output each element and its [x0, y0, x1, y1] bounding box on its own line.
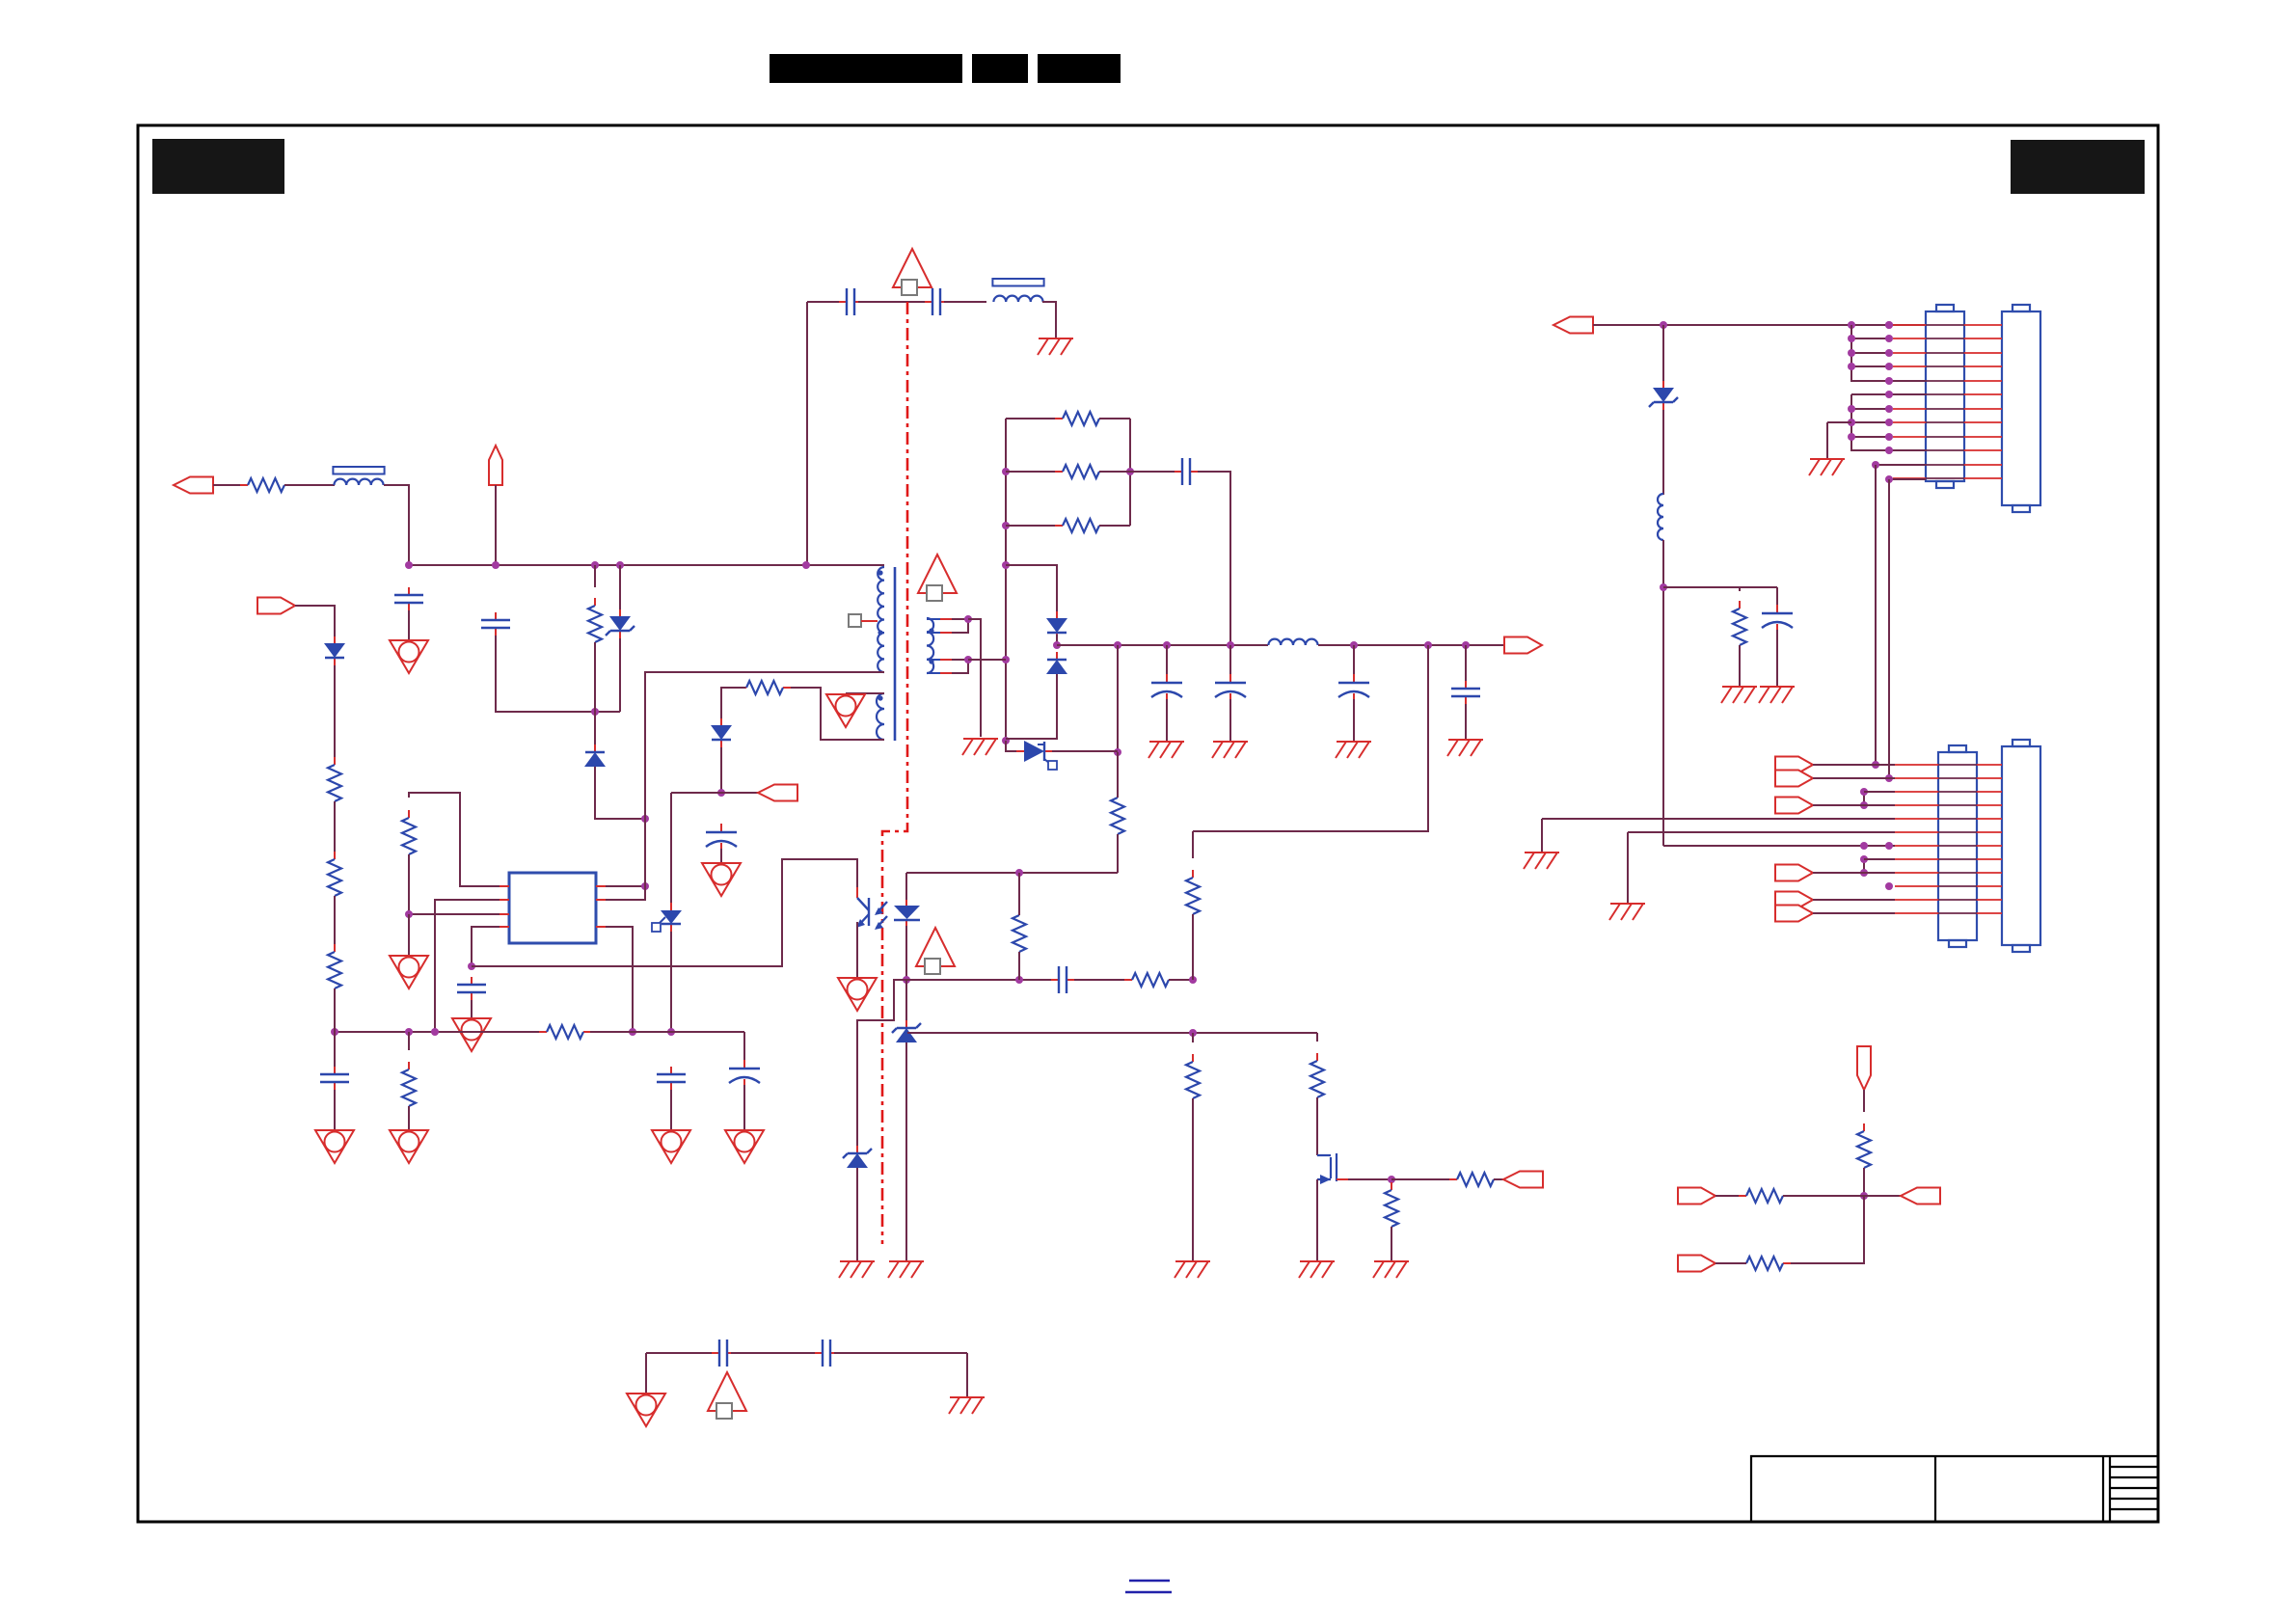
MOSFET Q1 — [1317, 1153, 1348, 1184]
wire R16 to Q1 drain — [1316, 1097, 1318, 1155]
wire LED cathode — [905, 926, 907, 980]
signal ground C5 — [652, 1130, 690, 1163]
wire C10 to ground — [1166, 699, 1168, 742]
wire down — [1627, 832, 1629, 904]
resistor R6 — [328, 852, 341, 904]
chassis ground Z3 — [839, 1261, 875, 1278]
inductor L4 — [1268, 639, 1317, 645]
wire R12 to node — [1192, 914, 1194, 980]
wire J1 pins1-5 tie — [1851, 325, 1926, 381]
U1 pin1 stub — [500, 886, 606, 927]
wire LED to Z2 — [905, 980, 907, 1024]
signal ground R8 — [390, 1130, 428, 1163]
wire sense top — [1192, 831, 1194, 858]
capacitor C6 — [729, 1060, 760, 1088]
wire VIN to bus — [495, 485, 497, 565]
connector tag SENSE — [1857, 1046, 1871, 1090]
redaction box top-left — [152, 139, 284, 194]
connector J1 pin wires inner — [1926, 325, 1964, 478]
chassis ground row6 — [1609, 904, 1645, 920]
junction — [591, 708, 599, 716]
wire CY2 to L3 — [944, 301, 986, 303]
redaction bar small2 — [1038, 54, 1121, 83]
resistor R1 — [588, 598, 602, 650]
transformer T1 auxiliary winding — [877, 693, 884, 740]
diode D5 — [1046, 652, 1067, 682]
wire stub — [1117, 793, 1119, 798]
connector tag ACL — [174, 477, 213, 494]
wire row12 — [1889, 478, 1926, 480]
connector tag VCC out — [758, 785, 797, 801]
capacitor CY1 — [839, 288, 862, 315]
capacitor C13 — [1451, 681, 1480, 704]
connector tag P1 — [1775, 757, 1813, 773]
wire C9 to output bus — [1198, 472, 1230, 645]
wire U3 to bus — [670, 932, 672, 1032]
junction — [1163, 641, 1171, 649]
wire stub R19 — [1739, 587, 1741, 591]
wire row12 drop — [1888, 479, 1890, 778]
wire pin3 to ground — [408, 914, 410, 956]
chassis ground C12 — [1336, 742, 1371, 758]
redaction box top-right — [2011, 140, 2145, 194]
capacitor C1 — [394, 587, 423, 610]
junction — [1462, 641, 1470, 649]
chassis ground CY4 — [949, 1397, 985, 1414]
footer mark — [1125, 1581, 1172, 1592]
resistor R2 — [402, 810, 416, 862]
phase dot secondary2 — [929, 659, 933, 663]
secondary tap stubs pair1 — [927, 619, 940, 633]
wire bottom caps left — [646, 1352, 716, 1354]
wire Rbank right rail — [1129, 419, 1131, 526]
diode D4 — [1046, 611, 1067, 640]
controller IC U1 — [509, 873, 596, 943]
wire tag row11 — [1813, 899, 1895, 901]
connector J3 — [1938, 745, 1977, 947]
chassis ground C11 — [1212, 742, 1248, 758]
wire return to pin7 — [606, 819, 645, 900]
connector tag SDA — [1678, 1188, 1715, 1204]
junction — [1848, 419, 1855, 426]
phase dot aux — [878, 695, 882, 700]
junction — [1114, 641, 1121, 649]
junction — [1002, 737, 1010, 744]
wire rows8-9 tie — [1863, 859, 1865, 873]
junction — [1885, 349, 1893, 357]
capacitor C10 — [1151, 674, 1182, 702]
capacitor CY4 — [815, 1340, 838, 1367]
wire node to D1 — [594, 712, 596, 745]
wire to Z3 — [857, 980, 906, 1150]
wire rail to D4 — [1006, 565, 1057, 611]
resistor RB — [1055, 465, 1107, 478]
wire tag to R23 — [1715, 1262, 1746, 1264]
wire row6 — [1851, 393, 1926, 395]
junction — [1189, 1029, 1197, 1037]
junction — [1860, 788, 1868, 796]
junction — [1885, 774, 1893, 782]
wire HV to D3 — [295, 606, 335, 636]
phase dot primary mid — [878, 630, 882, 635]
wire tag row12 — [1813, 912, 1895, 914]
wire R1 to node — [594, 642, 596, 712]
wire to C9 — [1130, 471, 1178, 473]
junction LED cathode — [903, 976, 910, 984]
capacitor C4 — [706, 824, 737, 852]
wire L3 to ground — [1042, 302, 1056, 338]
junction — [591, 561, 599, 569]
capacitor C8 — [1051, 966, 1074, 993]
wire row8 — [1864, 858, 1895, 860]
wire R7 to bus — [334, 988, 336, 1032]
signal ground C6 — [725, 1130, 764, 1163]
junction — [1885, 405, 1893, 413]
wire pin2 to bus — [435, 900, 500, 1032]
transformer T1 primary winding — [878, 567, 884, 672]
redaction bar small — [972, 54, 1028, 83]
resistor R13s — [1111, 790, 1124, 842]
wire VSB to connector — [1593, 324, 1926, 326]
wire bus to C7 — [334, 1032, 336, 1067]
wire row3 — [1864, 791, 1895, 793]
wire RC left — [1006, 525, 1063, 527]
wire bus to R12 top — [1193, 645, 1428, 831]
junction — [1872, 761, 1879, 769]
junction — [616, 561, 624, 569]
wire pin3 — [409, 913, 500, 915]
resistor R21 — [1857, 1123, 1871, 1176]
junction — [1848, 405, 1855, 413]
wire row7 — [1851, 408, 1889, 410]
wire to Z4 — [1662, 325, 1664, 381]
wire top line to primary bus — [806, 302, 808, 565]
chassis ground R17 — [1373, 1261, 1409, 1278]
wire rail to U4 — [1006, 741, 1024, 751]
wire J1 pins6-10 tie — [1851, 394, 1926, 450]
wire row2 — [1851, 338, 1889, 339]
connector J3 pin wires inner — [1938, 765, 1977, 913]
warning triangle W1 — [893, 249, 932, 295]
shunt regulator U4 — [1016, 741, 1057, 770]
resistor R9 — [1013, 907, 1026, 960]
wire C7 to ground — [334, 1090, 336, 1130]
wire secondary pair2 — [952, 660, 968, 673]
wire R9 top — [1018, 873, 1020, 915]
resistor R7 — [328, 944, 341, 996]
wire C12 to ground — [1353, 699, 1355, 742]
junction — [1860, 842, 1868, 850]
wire Z2 to ground — [905, 1042, 907, 1261]
transformer T1 core — [894, 567, 897, 741]
wire primary bus — [409, 564, 884, 566]
wire pin8 to return — [606, 885, 645, 887]
junction — [1002, 561, 1010, 569]
phase dot secondary — [929, 628, 933, 633]
zener diode Z3 — [843, 1146, 872, 1176]
wire C13 to ground — [1465, 704, 1467, 740]
signal ground aux — [826, 694, 865, 727]
capacitor C2 — [481, 612, 510, 636]
secondary tap stubs red pair2 — [940, 660, 952, 673]
signal ground CY3 — [627, 1394, 665, 1426]
zener diode Z2 — [892, 1020, 921, 1050]
wire R10 to node — [1169, 979, 1193, 981]
junction — [1885, 419, 1893, 426]
wire R21 to node — [1863, 1168, 1865, 1196]
junction — [1227, 641, 1234, 649]
junction — [1848, 349, 1855, 357]
junction sense — [1114, 748, 1121, 756]
wire D3 to R5 — [334, 665, 336, 765]
wire RC right — [1099, 525, 1130, 527]
junction fb node — [1189, 976, 1197, 984]
wire VCC node to U3 — [670, 793, 672, 910]
connector tag PSON — [1503, 1172, 1543, 1188]
resistor R10 — [1124, 973, 1176, 987]
junction — [1885, 335, 1893, 342]
inductor L3 — [992, 279, 1043, 302]
inductor L2 — [1658, 494, 1663, 540]
chassis ground R19 — [1721, 687, 1757, 703]
warning triangle W4 — [916, 928, 955, 974]
connector J1 — [1926, 305, 1964, 488]
wire lower bus left — [335, 1031, 540, 1033]
wire VCC node left — [671, 792, 758, 794]
wire RC branch — [1663, 586, 1777, 588]
redaction bar title — [770, 54, 962, 83]
wire bus to C6 — [743, 1032, 745, 1069]
wire tag row2 — [1813, 777, 1895, 779]
wire tap to ground — [968, 619, 981, 737]
connector tag P5 — [1775, 892, 1813, 908]
junction — [1350, 641, 1358, 649]
resistor R16 — [1310, 1053, 1324, 1105]
wire row9 — [1851, 436, 1889, 438]
wire U4 to sense node — [1052, 750, 1118, 752]
chassis ground C14 — [1759, 687, 1795, 703]
wire node to R11 — [1192, 1033, 1194, 1042]
connector J3 J4 pin wires red — [1895, 765, 2002, 913]
wire secondary lower bus — [907, 1032, 1317, 1034]
wire ACL to R20 — [213, 484, 248, 486]
wire output bus left — [1057, 644, 1268, 646]
wire Z4 to L2 — [1662, 410, 1664, 495]
junction — [1885, 391, 1893, 398]
diode D3 — [324, 636, 345, 665]
wire row3 — [1851, 352, 1889, 354]
wire pin5 to bus — [606, 927, 633, 1032]
junction — [802, 561, 810, 569]
capacitor C9 — [1175, 458, 1198, 485]
junction — [641, 815, 649, 823]
wire Q1 source to ground — [1316, 1179, 1318, 1261]
wire R6 to R7 — [334, 896, 336, 952]
connector J1 J2 pin wires red — [1893, 325, 2002, 478]
wire bus to C13 — [1465, 645, 1467, 685]
connector tag P2 — [1775, 771, 1813, 787]
wire bus to Z1 — [619, 565, 621, 609]
junction — [1848, 321, 1855, 329]
signal ground C7 — [315, 1130, 354, 1163]
resistor RC — [1055, 519, 1107, 532]
wire C2 to snubber bottom — [496, 636, 620, 712]
junction — [667, 1028, 675, 1036]
junction — [405, 561, 413, 569]
junction — [1860, 801, 1868, 809]
resistor R11 — [1186, 1054, 1200, 1106]
optocoupler U2 transistor — [856, 887, 887, 939]
capacitor C12 — [1338, 674, 1369, 702]
wire Rbank left rail — [1005, 419, 1007, 741]
wire D4 to bus — [1056, 635, 1058, 645]
wire bus to C11 — [1229, 645, 1231, 683]
resistor RA — [1055, 412, 1107, 425]
wire tap to winding — [861, 620, 878, 622]
wire opto emitter to ground — [856, 922, 858, 978]
wire R11 to ground — [1192, 1098, 1194, 1261]
junction — [641, 882, 649, 890]
resistor R23 — [1739, 1257, 1791, 1270]
wire C3 to ground — [471, 1000, 473, 1018]
diode D1 — [584, 744, 606, 774]
wire row6 to ground — [1628, 831, 1895, 833]
wire tag to R21 — [1863, 1090, 1865, 1112]
resistor R22 — [1739, 1189, 1791, 1203]
wire C8 to R10 — [1074, 979, 1132, 981]
wire fb left — [906, 979, 1051, 981]
wire row11 drop — [1875, 465, 1877, 765]
chassis ground row5 — [1524, 853, 1559, 869]
wire to signal ground — [645, 1353, 647, 1394]
wire RB left — [1006, 471, 1063, 473]
connector tag VIN — [489, 446, 502, 485]
junction — [1424, 641, 1432, 649]
resistor R20 — [240, 478, 292, 492]
junction — [1885, 321, 1893, 329]
wire down — [1541, 819, 1543, 853]
capacitor CY2 — [925, 288, 948, 315]
wire opto LED anode line — [906, 872, 1118, 874]
wire bottom caps right — [834, 1352, 967, 1354]
junction — [1885, 363, 1893, 370]
resistor R17 — [1385, 1182, 1398, 1234]
wire R9 bottom — [1018, 952, 1020, 980]
junction — [1848, 363, 1855, 370]
connector tag P4 — [1775, 865, 1813, 881]
junction — [964, 656, 972, 663]
wire top line left — [807, 301, 843, 303]
wire R2 to pin3 node — [408, 854, 410, 914]
signal ground C4 — [702, 863, 741, 896]
connector J4 — [2002, 740, 2040, 952]
wire C14 to ground — [1776, 630, 1778, 687]
wire gate to R18 — [1391, 1178, 1457, 1180]
chassis ground C13 — [1447, 740, 1483, 756]
chassis ground Q1 — [1299, 1261, 1335, 1278]
junction — [1885, 433, 1893, 441]
wire node to tag — [1864, 1195, 1901, 1197]
junction — [1660, 321, 1667, 329]
wire C4 to ground — [720, 849, 722, 863]
wire node down — [1783, 1196, 1864, 1263]
wire aux bottom — [783, 688, 884, 740]
resistor R3 — [739, 681, 791, 694]
junction L2 node — [1660, 583, 1667, 591]
warning triangle W3 — [708, 1372, 746, 1419]
resistor R8 — [402, 1062, 416, 1114]
wire C5 to ground — [670, 1090, 672, 1130]
zener diode Z4 — [1649, 381, 1678, 410]
wire L2 down to connector row — [1662, 540, 1664, 846]
transformer T1 secondary winding — [927, 618, 933, 673]
connector tag FB2 — [1901, 1188, 1940, 1204]
wire Z3 to ground — [856, 1168, 858, 1261]
wire bus to R1 — [594, 565, 596, 587]
wire L1 to bus — [384, 485, 409, 565]
wire bus to R8 — [408, 1032, 410, 1050]
wire tag to R22 — [1715, 1195, 1746, 1197]
secondary tap stubs pair2 — [927, 660, 940, 673]
junction VCC node — [717, 789, 725, 797]
wire secondary pair1 — [952, 619, 968, 633]
wire R18 to tag — [1494, 1178, 1503, 1180]
connector tag P6 — [1775, 906, 1813, 922]
wire rows3-4 tie — [1863, 792, 1865, 805]
wire lower bus right — [590, 1031, 744, 1033]
junction — [431, 1028, 439, 1036]
chassis ground secondary — [962, 739, 998, 755]
diode D2 — [711, 718, 732, 747]
wire R3 to D2 — [721, 688, 745, 718]
junction — [1885, 377, 1893, 385]
wire between CY3 CY4 — [731, 1352, 815, 1354]
junction — [331, 1028, 338, 1036]
junction — [1848, 433, 1855, 441]
junction — [1126, 468, 1134, 475]
wire bus to C12 — [1353, 645, 1355, 683]
junction pin4 node — [468, 962, 475, 970]
wire RB right — [1099, 471, 1130, 473]
chassis ground R11 — [1175, 1261, 1210, 1278]
wire R13s to opto line — [1117, 834, 1119, 873]
connector tag HV — [257, 598, 295, 614]
phase dot primary — [878, 570, 882, 575]
junction — [1860, 855, 1868, 863]
wire to LED — [905, 873, 907, 900]
zener diode Z1 — [606, 609, 635, 638]
optocoupler U2 LED — [894, 900, 920, 928]
primary tap square — [849, 614, 861, 627]
wire C11 to ground — [1229, 699, 1231, 742]
wire bus to sense — [1117, 645, 1119, 752]
inductor L1 — [333, 467, 384, 485]
resistor R19 — [1733, 601, 1746, 653]
wire row11 — [1876, 464, 1926, 466]
signal ground C3 — [452, 1018, 491, 1051]
capacitor C14 — [1762, 605, 1793, 633]
capacitor CY3 — [712, 1340, 735, 1367]
junction — [629, 1028, 636, 1036]
junction gate node — [1388, 1176, 1395, 1183]
wire row7 from L2 — [1663, 845, 1895, 847]
wire to chassis ground — [966, 1353, 968, 1397]
junction — [1002, 656, 1010, 663]
wire D2 to VCC node — [720, 747, 722, 793]
connector tag VOUT — [1504, 637, 1542, 654]
wire R5 to R6 — [334, 801, 336, 859]
junction — [1885, 447, 1893, 454]
